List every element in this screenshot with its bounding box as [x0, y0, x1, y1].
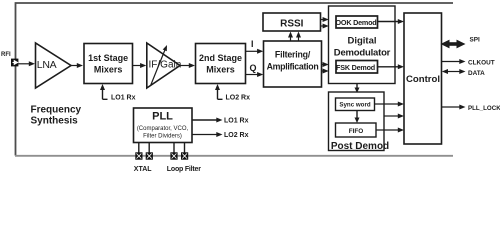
block Filtering/Amplification [264, 41, 322, 87]
SPI bidirectional bus arrow [441, 40, 466, 49]
wire filtering to RSSI (left) [288, 32, 293, 42]
svg-text:Filtering/: Filtering/ [275, 50, 311, 60]
wire filtering to RSSI (right) [296, 32, 301, 42]
svg-text:Filter Dividers): Filter Dividers) [143, 133, 182, 139]
block FIFO [336, 123, 377, 137]
wire PLL to XTAL pin 2 [148, 143, 150, 153]
pin XTAL 1 [135, 152, 142, 159]
block 1st Stage Mixers [84, 44, 133, 84]
block Digital Demodulator [329, 6, 396, 84]
amplifier LNA [36, 43, 72, 88]
svg-text:2nd Stage: 2nd Stage [199, 53, 242, 63]
LO2 Rx feed arrow into 2nd stage mixers [215, 84, 223, 99]
pin Loop Filter 2 [181, 152, 188, 159]
svg-text:LNA: LNA [37, 59, 57, 71]
pin RFI [11, 59, 18, 67]
svg-text:LO1 Rx: LO1 Rx [224, 118, 249, 125]
wire LNA to 1st stage mixers [71, 63, 83, 68]
block PLL [134, 108, 193, 143]
svg-text:OOK Demod: OOK Demod [336, 18, 377, 27]
svg-text:Control: Control [406, 74, 440, 85]
svg-text:Amplification: Amplification [267, 62, 319, 72]
pin Loop Filter 1 [170, 152, 177, 159]
wire PLL_LOCK output [442, 105, 466, 110]
wire Digital Demodulator to Post Demod [355, 84, 360, 94]
svg-text:LO2 Rx: LO2 Rx [224, 132, 249, 139]
svg-text:Mixers: Mixers [94, 64, 123, 74]
svg-text:FSK Demod: FSK Demod [336, 63, 375, 72]
wire filtering to FSK demod (upper) [322, 62, 329, 67]
wire PLL to Loop Filter pin 1 [173, 143, 175, 153]
block Control [404, 13, 442, 144]
svg-text:CLKOUT: CLKOUT [468, 60, 495, 67]
svg-text:RFI: RFI [1, 52, 11, 58]
block 2nd Stage Mixers [196, 44, 246, 84]
wire OOK demod to Control [378, 19, 405, 24]
svg-text:SPI: SPI [470, 37, 481, 44]
svg-text:XTAL: XTAL [134, 166, 152, 173]
wire 1st stage mixers to IF/Gain [133, 63, 147, 68]
svg-text:I: I [251, 39, 254, 49]
svg-text:DATA: DATA [468, 70, 485, 77]
svg-text:Post Demod: Post Demod [331, 141, 389, 152]
wire I from mixers to filtering [246, 49, 264, 54]
svg-text:FIFO: FIFO [349, 128, 364, 135]
wire Q from mixers to filtering [246, 72, 264, 77]
svg-text:LO1 Rx: LO1 Rx [111, 95, 136, 102]
wire Post Demod to Control [384, 114, 404, 119]
wire RSSI to OOK demod (upper) [321, 17, 329, 22]
svg-text:Digital: Digital [347, 36, 376, 47]
wire RFI pin to LNA [18, 61, 35, 66]
wire RSSI to OOK demod (lower) [321, 24, 329, 29]
wire FSK demod to Control [378, 64, 405, 69]
wire PLL to XTAL pin 1 [138, 143, 140, 153]
block RSSI [263, 13, 321, 31]
svg-text:Demodulator: Demodulator [334, 48, 391, 59]
wire filtering to FSK demod (lower) [322, 69, 329, 74]
amplifier IF/Gain (variable gain) [147, 43, 181, 88]
svg-text:Loop Filter: Loop Filter [167, 166, 201, 173]
svg-text:PLL_LOCK: PLL_LOCK [468, 105, 500, 112]
svg-text:IF/Gain: IF/Gain [149, 60, 182, 71]
svg-text:Frequency: Frequency [31, 105, 82, 116]
wire Sync word to FIFO [355, 111, 360, 124]
block OOK Demod [336, 16, 378, 28]
svg-text:1st Stage: 1st Stage [88, 53, 128, 63]
chip boundary top and left edges [16, 3, 454, 156]
pin XTAL 2 [146, 152, 153, 159]
svg-text:Synthesis: Synthesis [31, 116, 79, 127]
svg-text:LO2 Rx: LO2 Rx [226, 95, 251, 102]
block Sync word [336, 98, 375, 111]
wire PLL LO1 Rx output [192, 118, 223, 123]
svg-text:Sync word: Sync word [339, 102, 371, 109]
svg-text:RSSI: RSSI [280, 18, 304, 29]
svg-text:PLL: PLL [152, 111, 173, 123]
wire PLL LO2 Rx output [192, 132, 223, 137]
wire IF/Gain to 2nd stage mixers [180, 63, 195, 68]
wire FIFO to Control [376, 128, 404, 133]
label Frequency Synthesis [31, 105, 82, 127]
chip boundary bottom edge [15, 155, 453, 157]
svg-text:(Comparator, VCO,: (Comparator, VCO, [137, 126, 189, 132]
LO1 Rx feed arrow into 1st stage mixers [100, 84, 108, 99]
wire CLKOUT output [442, 59, 466, 64]
wire PLL to Loop Filter pin 2 [184, 143, 186, 153]
block FSK Demod [336, 61, 378, 74]
wire DATA bidirectional [442, 69, 466, 74]
svg-text:Q: Q [250, 63, 257, 73]
wire Sync word to Control [375, 102, 405, 107]
block Post Demod [329, 92, 390, 152]
svg-text:Mixers: Mixers [206, 64, 235, 74]
